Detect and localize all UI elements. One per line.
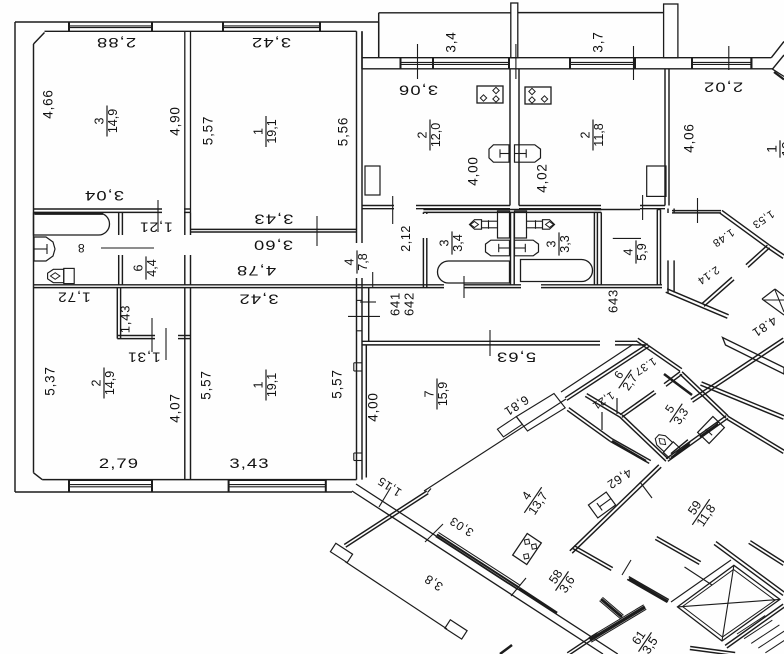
room label 2/12.0 [416, 120, 444, 151]
tick 4.62 wall [640, 482, 652, 498]
tick room 1.43 door [165, 328, 167, 360]
svg-text:3,7: 3,7 [591, 31, 606, 52]
svg-text:5,37: 5,37 [43, 366, 58, 395]
room label 2/11.8 [579, 120, 607, 151]
svg-text:4,00: 4,00 [366, 392, 381, 421]
tick 3.03 left [425, 524, 443, 542]
svg-text:5,57: 5,57 [330, 369, 345, 398]
tick 641 wall crossing [348, 315, 380, 317]
stove kitchen right [525, 87, 551, 104]
svg-text:6: 6 [132, 264, 146, 271]
wall NE of elevator [714, 544, 783, 595]
svg-text:3,4: 3,4 [444, 31, 459, 52]
tick 5.63 [489, 330, 491, 356]
exterior band top right inner [362, 68, 773, 70]
svg-text:19,1: 19,1 [265, 373, 279, 397]
room label 59/11.8 [680, 491, 720, 532]
svg-text:4,07: 4,07 [168, 393, 183, 422]
svg-text:1,21: 1,21 [139, 219, 172, 234]
room 7 SE diagonal wall upper part [565, 344, 648, 398]
tick dim 59 [685, 567, 713, 585]
room 5/3.3 SE wall [668, 418, 728, 461]
svg-text:3,4: 3,4 [451, 234, 465, 251]
wall SE of elevator [727, 607, 784, 648]
kitchen window right [570, 61, 635, 63]
svg-text:3,3: 3,3 [558, 235, 572, 252]
room 5/3.3 SW wall [620, 417, 666, 461]
sink room 4/13.7 on NE wall [588, 492, 615, 518]
svg-text:3: 3 [93, 117, 107, 124]
balcony 3.8 back wall family B [344, 491, 427, 545]
svg-text:3,42: 3,42 [238, 291, 278, 306]
pillar between balconies [511, 3, 518, 58]
entrance hall left wall [667, 260, 669, 292]
svg-text:14,9: 14,9 [103, 371, 117, 395]
window room 1 lower bottom [229, 486, 326, 488]
tick 58 partition [622, 560, 631, 575]
window room 3 top [69, 25, 152, 27]
lobby NE wall upper [749, 543, 784, 565]
room 5/3.3 NE wall [682, 372, 728, 416]
room 6 door jamb [616, 398, 618, 414]
tick lower 1.31 [151, 318, 153, 352]
kitchen divider wall [509, 69, 511, 206]
room label 1/19.1 [252, 116, 280, 147]
room 61 NW wall thick [590, 607, 645, 640]
tick 3.06 window [417, 44, 419, 79]
room label 58/3.6 [543, 563, 579, 598]
room label 6/2.7 [607, 362, 642, 396]
svg-text:3,42: 3,42 [251, 35, 291, 50]
svg-text:643: 643 [605, 289, 620, 313]
sink left apartment [34, 237, 55, 261]
tick 643 kitchen [642, 195, 644, 220]
partial elevator box right edge [762, 289, 775, 299]
svg-text:3,43: 3,43 [253, 211, 293, 226]
tick 3.60 corridor [316, 216, 318, 246]
svg-text:2,79: 2,79 [99, 456, 139, 471]
svg-text:3,06: 3,06 [398, 82, 438, 97]
svg-text:5,57: 5,57 [201, 116, 216, 145]
room label 4/13.7 [512, 479, 552, 520]
window room 2 bottom [69, 486, 152, 488]
balcony 3.8 pier end [445, 620, 467, 639]
kitchen right bottom wall [519, 205, 601, 207]
stair treads bottom right [737, 616, 765, 635]
dark segment wing wall [519, 588, 557, 613]
room 6 right wall [184, 212, 186, 235]
tick 1.15 band [379, 487, 391, 507]
svg-text:7,8: 7,8 [356, 253, 370, 270]
sink pair on divider wall upper [486, 240, 510, 256]
balcony 3.8 outer edge [345, 562, 447, 630]
wall 4.81 thick band [723, 338, 784, 375]
balcony 3.4 top [379, 12, 511, 14]
svg-text:5,57: 5,57 [199, 370, 214, 399]
dark wall above room 5 NE [664, 374, 692, 395]
room label 3/3.3 [545, 232, 573, 255]
wall to right edge [768, 248, 784, 259]
svg-text:4,90: 4,90 [168, 106, 183, 135]
room 4/5.9 top wall [594, 209, 640, 211]
stove kitchen left [477, 86, 503, 103]
room label 6/4.4 [132, 256, 160, 279]
svg-text:641: 641 [387, 292, 402, 316]
window 2.02 [692, 61, 751, 63]
kitchen-left top structure [361, 31, 363, 69]
wall 1.53 diagonal [720, 213, 768, 248]
room 4/5.9 right wall [656, 210, 658, 285]
svg-text:2,12: 2,12 [399, 225, 413, 252]
room 4/5.9 left wall [600, 212, 602, 284]
tick 641 642 [360, 301, 376, 303]
svg-text:11,8: 11,8 [592, 123, 606, 146]
svg-text:2,88: 2,88 [96, 35, 136, 50]
pillar right balcony [664, 4, 678, 58]
svg-text:19: 19 [779, 141, 784, 157]
tick balcony 3.4 [515, 44, 517, 79]
room 7 SE diagonal wall lower part [424, 399, 566, 491]
wing wall below elevator [690, 650, 735, 654]
room 61 partition to band [569, 635, 599, 654]
svg-text:1: 1 [252, 381, 266, 388]
outer wall top [15, 21, 379, 23]
window 3.03 on wing wall [438, 532, 520, 585]
sink room 5/3.3 [698, 417, 725, 444]
svg-text:8: 8 [77, 241, 84, 255]
room 5/6 shared wall [622, 393, 656, 417]
room 1.43 left wall [116, 288, 118, 339]
room label 4/5.9 [622, 240, 650, 263]
svg-text:4,4: 4,4 [145, 259, 159, 276]
sink pair kitchens on divider wall [489, 145, 509, 162]
svg-text:2: 2 [579, 131, 593, 138]
wall room 3 bottom / bath top [34, 208, 163, 210]
wall between room 3 and room 1 [184, 31, 186, 212]
svg-text:4: 4 [343, 258, 357, 265]
wall room 1 bottom [191, 228, 357, 230]
svg-text:4,66: 4,66 [41, 89, 56, 118]
room label 7/15.9 [423, 379, 451, 410]
svg-text:4,06: 4,06 [682, 123, 697, 152]
tick entrance door [697, 198, 699, 223]
svg-text:2,02: 2,02 [703, 79, 743, 94]
toilet room 5/3.3 [652, 431, 680, 459]
svg-text:1,31: 1,31 [127, 349, 160, 364]
balcony 3.8 pier start [330, 543, 352, 562]
svg-text:5,9: 5,9 [635, 243, 649, 260]
bathtub bathroom 3/3.4 [438, 261, 510, 283]
fridge left kitchen [365, 166, 380, 195]
kitchen left bottom wall [362, 205, 394, 207]
wall W6a from corner down-left [561, 344, 633, 392]
svg-text:5,63: 5,63 [496, 349, 536, 364]
top-right corner chamfer [750, 58, 752, 69]
corridor splay wall from entrance [666, 292, 728, 318]
bathrooms top wall [423, 209, 601, 211]
kitchen door jamb [601, 412, 603, 430]
bathtub left apartment [34, 213, 110, 235]
svg-text:2: 2 [416, 131, 430, 138]
corridor band left wall [368, 288, 370, 342]
inner wall bottom [42, 479, 356, 481]
inner wall left [33, 44, 35, 473]
room 7 left wall [365, 345, 367, 478]
balcony 3.7 top [518, 12, 664, 14]
svg-text:4,78: 4,78 [236, 262, 276, 277]
balcony door bumps room 7 [516, 394, 565, 432]
partition 58/59 [573, 548, 612, 570]
wing wall start at top-right corner [772, 69, 784, 77]
cupboard right kitchen [647, 166, 666, 196]
svg-text:7: 7 [423, 390, 437, 397]
svg-text:19,1: 19,1 [265, 119, 279, 143]
wall between room 2 and lower room 1 [184, 288, 186, 480]
corridor wall family B to right edge [693, 341, 784, 402]
room 7 left wall pier top [354, 362, 362, 364]
partition 59 / elevator lobby [655, 539, 699, 564]
room label 5/3.3 [658, 396, 693, 430]
wall from room 5 corner to right edge [726, 419, 783, 454]
svg-text:1,72: 1,72 [57, 289, 90, 304]
door dim line bath [101, 247, 154, 249]
room 4/13.7 SE wall dim 4.62 [572, 467, 661, 553]
svg-text:2: 2 [90, 379, 104, 386]
room label 1 right edge partial [764, 140, 784, 157]
svg-text:3,60: 3,60 [253, 237, 293, 252]
band end dark piece [500, 645, 512, 654]
outer wall bottom [15, 491, 352, 493]
svg-text:642: 642 [401, 292, 416, 316]
toilet left apartment [48, 268, 75, 283]
bathroom divider wall [510, 212, 512, 284]
room 7 left wall pier bottom [354, 452, 362, 454]
kitchen window left [401, 61, 510, 63]
room label 61/3.5 [626, 624, 662, 654]
tick window 2.02 [728, 46, 730, 70]
room label lower 1/19.1 [252, 370, 280, 401]
tick top corridor [372, 272, 374, 288]
elevator shaft box [678, 565, 780, 641]
window room 1 top [223, 25, 320, 27]
svg-text:4: 4 [622, 248, 636, 255]
bathroom left wall [422, 238, 424, 288]
corner chamfer top-left [34, 33, 45, 45]
outer wall left [14, 22, 16, 492]
tick 642 crossing [463, 276, 465, 298]
room 7 wall end cap [428, 489, 432, 493]
room label 3/14.9 [93, 106, 121, 137]
toilet bathroom 3/3.4 on divider wall [470, 211, 510, 238]
svg-text:1: 1 [252, 128, 266, 135]
svg-text:15,9: 15,9 [436, 382, 450, 406]
corner chamfer bottom-left [34, 473, 43, 480]
elevator inner edge [683, 570, 776, 638]
room label 4/7.8 [343, 250, 371, 273]
balcony 3.4 left wall [378, 13, 380, 58]
room label 3/3.4 [438, 231, 466, 254]
right wall of left block x356-362 [356, 31, 358, 243]
tick balcony 3.7 right [633, 46, 635, 80]
wing NW exterior wall band [356, 484, 618, 654]
room label 2/14.9 [90, 368, 118, 399]
room 6 SW wall [585, 396, 620, 417]
bath right wall [118, 212, 120, 235]
svg-text:4,02: 4,02 [535, 163, 550, 192]
svg-text:5,56: 5,56 [336, 117, 351, 146]
svg-text:3: 3 [545, 240, 559, 247]
corridor band bottom wall / room 7 top [362, 340, 600, 342]
elevator X [678, 599, 780, 607]
svg-text:12,0: 12,0 [429, 123, 443, 147]
elevator NW offset wall [671, 560, 731, 602]
stove room 4/13.7 [513, 533, 542, 564]
svg-text:3,04: 3,04 [84, 187, 124, 202]
corridor wall +22 to right edge [700, 385, 783, 419]
wall L_a room 6 NE boundary [636, 341, 680, 372]
dark wall 58/61 partition [601, 599, 622, 617]
svg-text:14,9: 14,9 [106, 109, 120, 133]
bathroom right wall [593, 212, 595, 284]
tick 3.03 right [511, 578, 526, 596]
exterior band top right outer [362, 57, 771, 59]
svg-text:1,43: 1,43 [117, 305, 132, 334]
tick 2.12 kitchen wall [392, 196, 394, 224]
entrance top wall [672, 210, 721, 212]
wall 2.14 diagonal [746, 245, 768, 265]
main cross wall y285 [34, 284, 445, 286]
inner wall top [45, 30, 357, 32]
room 1.43 bottom wall [117, 335, 155, 337]
wall cross ticks [357, 299, 363, 301]
dim tick room6 door [157, 200, 159, 232]
bathtub bathroom 3/3.3 [521, 260, 593, 282]
kitchen right outer wall [664, 69, 666, 206]
kitchen 13.7 NE wall [567, 410, 610, 441]
svg-text:3,43: 3,43 [229, 456, 269, 471]
svg-text:4,00: 4,00 [466, 156, 481, 185]
svg-text:3: 3 [438, 239, 452, 246]
tick room4 5.9 dim [613, 237, 641, 239]
svg-text:1: 1 [764, 145, 780, 153]
toilet bathroom 3/3.3 [515, 211, 555, 238]
